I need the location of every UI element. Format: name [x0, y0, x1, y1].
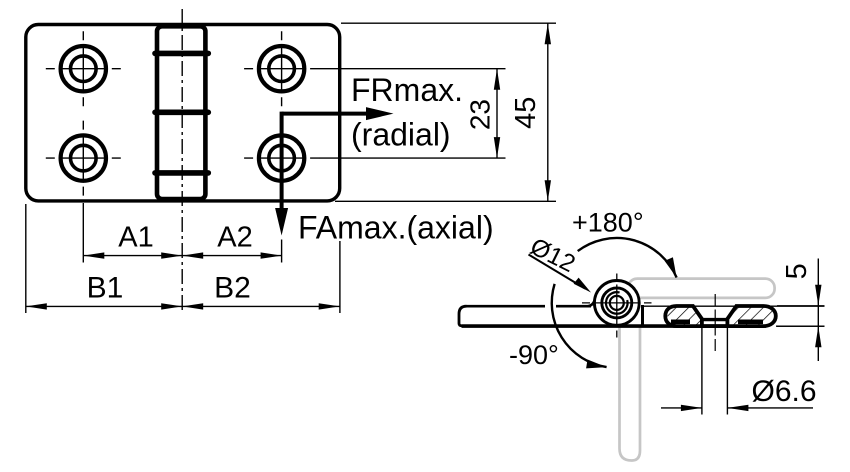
FR force line — [282, 112, 367, 116]
FA arrowhead — [275, 208, 288, 236]
svg-text:A1: A1 — [118, 222, 153, 254]
plate bottom ext thin line — [776, 325, 825, 327]
arc +180 — [578, 238, 677, 277]
svg-text:23: 23 — [465, 99, 496, 130]
hole bottom-right — [259, 135, 304, 180]
dim 6.6 extension lines — [701, 328, 703, 415]
extension line hole-right down — [281, 240, 283, 263]
knuckle divider bar 2 — [155, 110, 208, 116]
dim 5 line — [817, 259, 819, 362]
side plate left end — [459, 306, 467, 326]
extension line hole-left down — [82, 203, 84, 263]
dim A1 — [83, 255, 182, 257]
FR arrowhead — [366, 107, 394, 120]
knuckle ring — [602, 288, 632, 318]
pin centerline horizontal — [582, 302, 652, 304]
side plate top line left segment a — [467, 305, 592, 308]
svg-text:B1: B1 — [87, 272, 124, 305]
svg-text:A2: A2 — [217, 222, 252, 254]
extension line hinge right down — [339, 241, 341, 313]
knuckle right junction — [641, 305, 644, 326]
svg-text:Ø6.6: Ø6.6 — [752, 375, 817, 408]
dim 23 line — [496, 69, 498, 158]
extension line hinge left down — [25, 204, 27, 313]
knuckle spiral arc — [606, 292, 628, 314]
dim B1 — [26, 305, 182, 307]
svg-text:B2: B2 — [214, 272, 251, 305]
dim 6.6 arrows — [661, 407, 702, 409]
svg-text:5: 5 — [781, 263, 813, 279]
svg-text:+180°: +180° — [572, 208, 644, 238]
knuckle divider bar 3 — [155, 170, 208, 176]
dim 45 extension lines — [341, 22, 556, 24]
section bottom bar right — [738, 319, 763, 324]
hole bottom-left — [61, 135, 106, 180]
fillet plate to knuckle — [588, 296, 595, 306]
arc -90 arrowhead — [586, 360, 607, 369]
hinge outer outline — [26, 25, 340, 201]
svg-text:(radial): (radial) — [351, 117, 451, 153]
ghost plate rotated -90 — [620, 327, 641, 461]
svg-text:-90°: -90° — [509, 340, 559, 370]
hole bottom-left crosshair — [46, 121, 121, 196]
side plate bottom line — [462, 324, 767, 328]
FA force line — [280, 112, 284, 209]
svg-text:FAmax.(axial): FAmax.(axial) — [298, 210, 494, 246]
hole top-left crosshair — [46, 31, 121, 106]
section outline stadium — [665, 306, 776, 326]
svg-text:FRmax.: FRmax. — [351, 72, 463, 108]
svg-text:45: 45 — [510, 97, 542, 129]
section hatch right — [727, 306, 773, 325]
dim B2 — [182, 305, 340, 307]
hole top-left — [61, 46, 106, 91]
dim 45 line — [547, 23, 549, 201]
knuckle column — [157, 26, 205, 199]
hole top-right crosshair — [244, 31, 319, 106]
pin centerline vertical — [616, 274, 618, 338]
plate top thin line to right — [643, 305, 825, 307]
dim 5 extension lines — [777, 305, 825, 307]
hole top-right — [259, 46, 304, 91]
hole bottom-right crosshair — [244, 121, 319, 196]
knuckle pin hole — [610, 296, 624, 310]
knuckle divider bar 1 — [155, 51, 208, 57]
dim A2 — [182, 255, 281, 257]
leader diameter 12 — [529, 255, 586, 289]
centerline hinge pin axis — [181, 9, 183, 314]
countersink far edge — [702, 318, 728, 321]
section hatch left — [668, 306, 702, 325]
knuckle outer circle — [594, 281, 639, 326]
arc +180 arrowhead — [665, 257, 677, 277]
arc -90 — [552, 284, 607, 367]
ghost plate flipped +180 — [628, 279, 775, 298]
section bottom bar left — [671, 319, 690, 324]
countersunk hole centerline — [714, 294, 716, 353]
dim 23 extension lines — [319, 68, 506, 70]
